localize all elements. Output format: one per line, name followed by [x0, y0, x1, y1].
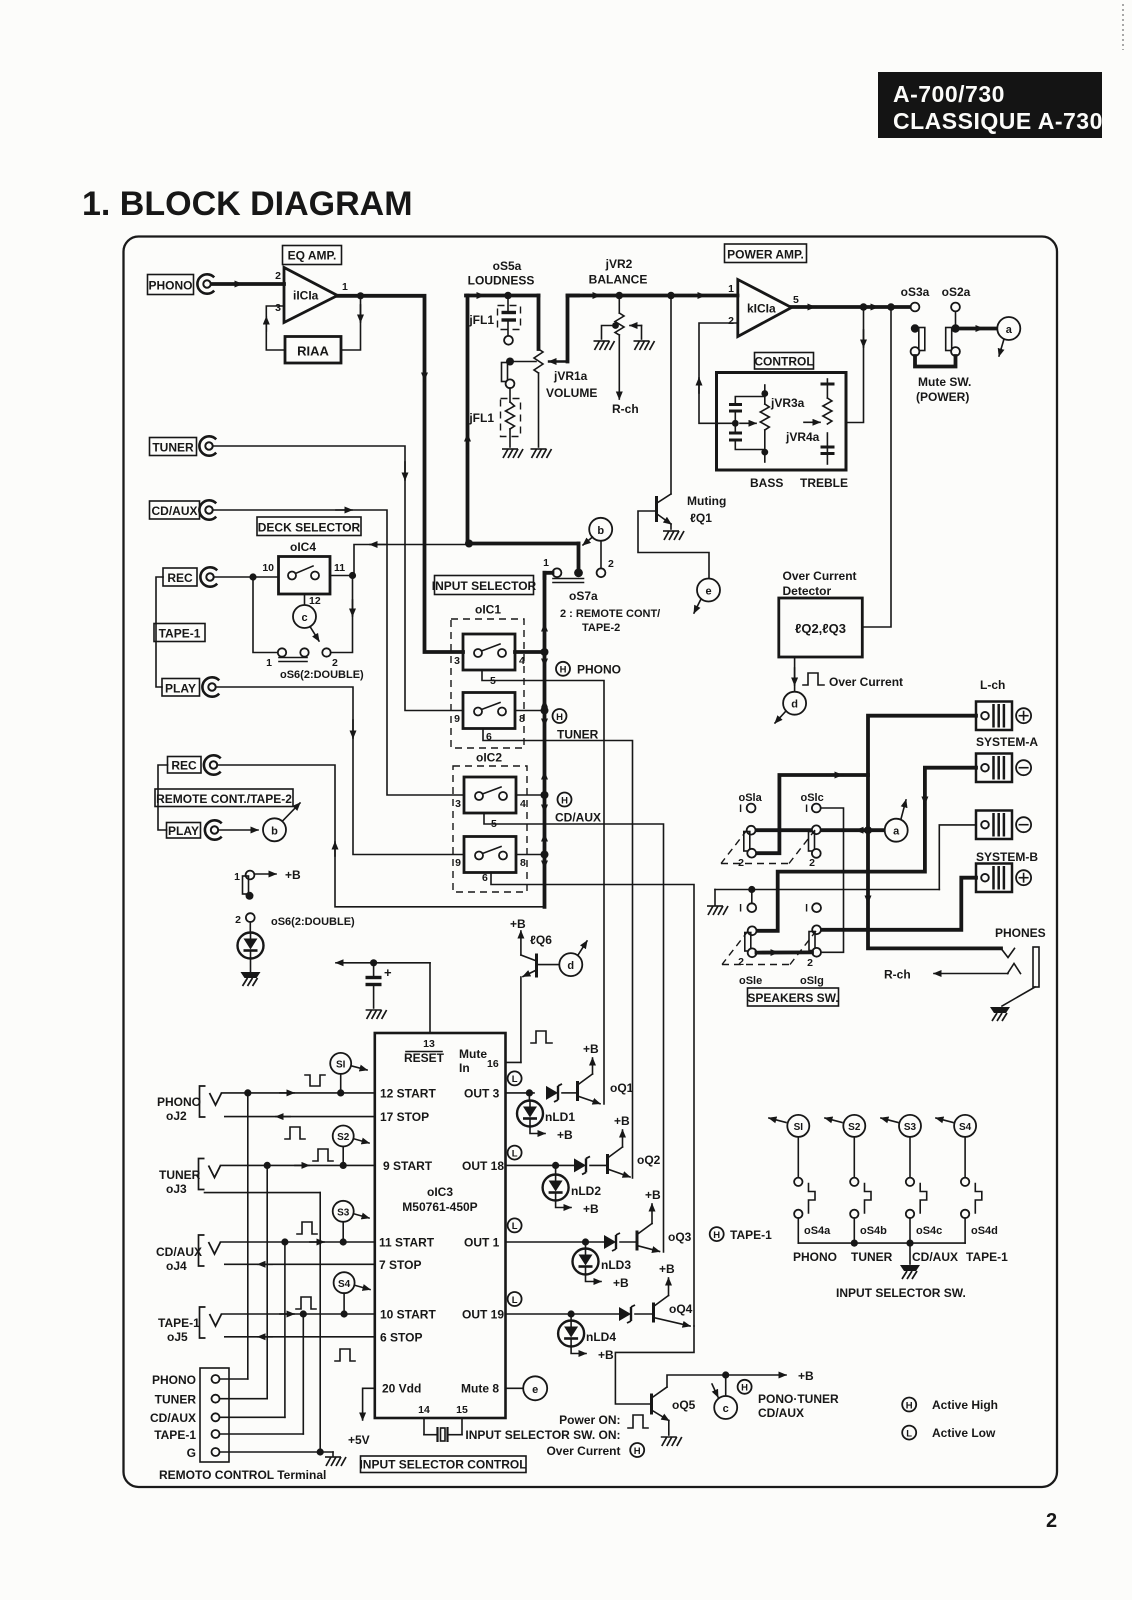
wire: panel common bus	[798, 1242, 965, 1244]
svg-text:1: 1	[543, 557, 549, 569]
POWER AMP. label box	[725, 244, 807, 263]
switch oS4c	[906, 1137, 927, 1243]
jack oJ4 cd/aux remote	[199, 1235, 221, 1266]
ground (solid) below LED	[241, 972, 261, 986]
node a (amp L output)	[885, 819, 908, 842]
PLAY jack connector (tape-1)	[202, 677, 219, 696]
ground (panel bus)	[900, 1265, 920, 1279]
pointer from node d	[775, 711, 786, 723]
switch oS5a lower section	[502, 363, 515, 389]
svg-text:oIC1: oIC1	[475, 603, 501, 617]
wire: LED4 to +B	[571, 1347, 586, 1354]
ground below loudness resistor	[502, 449, 523, 458]
node: dot out3	[526, 1089, 533, 1096]
H node (pono-tuner)	[738, 1380, 752, 1394]
H node (phono active high)	[556, 662, 570, 676]
svg-text:INPUT SELECTOR SW.: INPUT SELECTOR SW.	[836, 1286, 966, 1300]
switch oS4d	[961, 1137, 982, 1243]
svg-text:oS4c: oS4c	[916, 1225, 942, 1237]
pointer from node d	[578, 941, 587, 955]
svg-text:CD/AUX: CD/AUX	[912, 1250, 958, 1264]
svg-text:LOUDNESS: LOUDNESS	[468, 274, 535, 288]
wire: oS2a contact to pole	[955, 312, 957, 325]
ground (terminal G)	[325, 1457, 346, 1466]
svg-text:2: 2	[275, 270, 281, 282]
node: dot on ground bus above oS1e	[748, 886, 755, 893]
node: junction dot pin4 row	[541, 648, 549, 656]
terminal pin cd/aux	[212, 1413, 220, 1421]
node a (speaker feed)	[997, 317, 1020, 340]
wire: rail bend down to oS7a pole	[577, 544, 581, 571]
svg-text:H: H	[634, 1446, 641, 1457]
switch oS7a contact 2	[597, 568, 606, 577]
svg-text:jVR4a: jVR4a	[785, 430, 820, 444]
svg-text:S2: S2	[848, 1122, 861, 1133]
svg-text:OUT 1: OUT 1	[464, 1236, 500, 1250]
potentiometer jVR4a treble	[823, 398, 832, 424]
wire: thick selected-signal rail	[468, 542, 579, 546]
control node d (over current)	[783, 692, 806, 715]
svg-text:2: 2	[809, 857, 815, 869]
wire: IC2-1 pin 5 control line to Q3 emitter	[484, 813, 664, 1252]
S2 pushbutton node	[333, 1126, 354, 1147]
ground below muting transistor	[663, 531, 684, 540]
IC2 dashed outline	[453, 766, 527, 892]
node: dot S4 stem	[341, 1310, 348, 1317]
wire: LED3 to +B	[586, 1275, 602, 1282]
LED nLD4	[570, 1314, 572, 1321]
svg-text:l: l	[805, 803, 808, 815]
wire: dot to oS1e contact 1	[751, 890, 753, 904]
svg-text:H: H	[906, 1400, 913, 1411]
svg-text:INPUT SELECTOR: INPUT SELECTOR	[432, 579, 537, 593]
wire: oS1c contact 1 to oS1g lower pole	[821, 808, 844, 952]
pulse symbol (over current)	[803, 673, 824, 685]
wire: pin 20 Vdd to +5V	[363, 1388, 375, 1420]
svg-text:A-700/730: A-700/730	[893, 81, 1005, 107]
svg-text:oS4b: oS4b	[860, 1225, 887, 1237]
S4 panel node	[954, 1115, 976, 1137]
svg-text:CLASSIQUE A-730: CLASSIQUE A-730	[893, 108, 1103, 134]
dashed frame around oS1e / oS1g	[722, 931, 816, 965]
svg-text:oQ3: oQ3	[668, 1230, 692, 1244]
svg-text:jFL1: jFL1	[468, 313, 494, 327]
detector box lQ2,lQ3	[779, 598, 863, 657]
wire: feedback from output down to RIAA	[341, 296, 361, 350]
L node legend	[902, 1426, 916, 1440]
wire: contact 1 to selector output riser (thick)	[545, 573, 553, 578]
node: bus dot S3	[906, 1240, 913, 1247]
node: dot on start row	[244, 1089, 251, 1096]
wire: pin 7 STOP to jack	[225, 1263, 375, 1265]
bass coupling caps	[718, 394, 765, 453]
crystal on pins 14/15	[424, 1418, 462, 1442]
H node (over current)	[630, 1443, 644, 1457]
wire: bus to ground	[909, 1243, 911, 1264]
svg-text:oS7a: oS7a	[569, 589, 598, 603]
svg-text:c: c	[723, 1403, 729, 1415]
speaker terminal SYSTEM-A -	[976, 754, 1012, 783]
svg-text:oQ4: oQ4	[669, 1302, 693, 1316]
svg-text:PHONES: PHONES	[995, 926, 1046, 940]
svg-text:CD/AUX: CD/AUX	[150, 1411, 196, 1425]
svg-text:8: 8	[519, 713, 525, 725]
svg-text:SI: SI	[794, 1122, 804, 1133]
control node e (mute ctl)	[523, 1376, 547, 1400]
svg-text:L: L	[512, 1295, 518, 1306]
wire: oS1a contact 2 loop to L-ch riser (thick)	[756, 775, 868, 853]
pointer from S3	[355, 1214, 370, 1218]
svg-text:(POWER): (POWER)	[916, 390, 969, 404]
H node (tape-1 row)	[710, 1227, 724, 1241]
svg-text:2: 2	[728, 315, 734, 327]
wire: node a to speaker switch pole bus (thick)	[756, 828, 885, 832]
switch IC4 (deck selector)	[279, 557, 331, 595]
svg-text:4: 4	[519, 655, 525, 667]
wire: kIC1a pin 2 from control box	[699, 323, 737, 423]
svg-text:OUT 19: OUT 19	[462, 1308, 504, 1322]
wire: phone jack sleeve to ground	[1002, 987, 1035, 1006]
pointer into node c	[712, 1384, 718, 1397]
svg-text:7 STOP: 7 STOP	[379, 1258, 421, 1272]
svg-text:G: G	[187, 1446, 196, 1460]
svg-text:5: 5	[793, 294, 799, 306]
switch IC1-1 (phono)	[463, 634, 515, 670]
svg-text:3: 3	[455, 798, 461, 810]
wire: mute switch output to node a	[960, 327, 996, 331]
svg-text:oS6(2:DOUBLE): oS6(2:DOUBLE)	[271, 916, 355, 928]
control node d (mute from over current)	[559, 953, 582, 976]
DECK SELECTOR label box	[257, 517, 361, 536]
REC label box (tape-2)	[168, 757, 202, 774]
svg-text:16: 16	[487, 1058, 499, 1070]
wire: pin 6 STOP to jack	[225, 1336, 375, 1338]
H node (cd/aux active high)	[558, 793, 572, 807]
bass wiper arrow	[740, 422, 756, 424]
svg-text:oSlc: oSlc	[801, 792, 824, 804]
node: junction dot	[541, 791, 549, 799]
pointer from node b	[283, 803, 301, 821]
S1 pushbutton node	[330, 1053, 351, 1074]
pointer from S2	[355, 1139, 370, 1143]
svg-text:d: d	[567, 960, 574, 972]
mute switch oS3a section	[911, 303, 925, 356]
svg-text:S3: S3	[904, 1122, 917, 1133]
wire: terminal tape-1 to riser	[220, 1433, 304, 1435]
wire: play jack to IC2 switch-2 pin 9	[217, 687, 464, 855]
svg-text:EQ AMP.: EQ AMP.	[288, 249, 337, 263]
treble wiper arrow	[804, 421, 820, 423]
wire: Mute pin 8 to node e	[506, 1387, 524, 1389]
svg-text:2: 2	[738, 956, 744, 968]
capacitor (reset delay, electrolytic)	[366, 963, 393, 1008]
svg-text:L: L	[512, 1074, 518, 1085]
svg-text:oS4a: oS4a	[804, 1225, 831, 1237]
wire: oJ3 to pin 9 START	[221, 1164, 375, 1166]
EQ AMP. label box	[283, 246, 342, 265]
svg-text:Over Current: Over Current	[546, 1444, 620, 1458]
svg-text:b: b	[271, 825, 278, 837]
wire: Q6 emitter line into IC3 pin 16	[506, 1061, 521, 1063]
wire: oJ4 to pin 11 START	[221, 1241, 375, 1243]
svg-text:12: 12	[309, 595, 321, 607]
svg-text:20 Vdd: 20 Vdd	[382, 1382, 421, 1396]
svg-text:ℓQ1: ℓQ1	[690, 511, 712, 525]
wire: cd/aux remote line down to terminal	[284, 1242, 286, 1417]
svg-text:1. BLOCK DIAGRAM: 1. BLOCK DIAGRAM	[82, 185, 413, 223]
L node (out1)	[508, 1218, 522, 1232]
node: dot out19	[568, 1310, 575, 1317]
RESET label (with overline)	[404, 1051, 445, 1065]
control box outline	[717, 373, 847, 471]
svg-text:TAPE-1: TAPE-1	[154, 1428, 196, 1442]
wire: oJ5 to pin 10 START	[222, 1313, 375, 1315]
TAPE-1 label box	[154, 624, 205, 642]
svg-text:POWER AMP.: POWER AMP.	[727, 248, 804, 262]
pulse symbol (power on)	[628, 1415, 648, 1428]
svg-text:+B: +B	[285, 868, 301, 882]
RIAA feedback network box	[285, 337, 341, 364]
svg-text:c: c	[301, 612, 307, 624]
pointer from node b	[583, 537, 593, 545]
pointer from S1	[352, 1066, 367, 1070]
LED nPL (power indicator)	[238, 933, 264, 959]
svg-text:PHONO: PHONO	[577, 663, 621, 677]
svg-text:L-ch: L-ch	[980, 678, 1005, 692]
wire: pin 17 STOP to jack	[225, 1116, 375, 1118]
wire: IC2-1 pin 4 to selector riser	[516, 794, 545, 796]
pointer from S4	[356, 1286, 371, 1290]
transistor lQ6 (mute drive)	[521, 931, 537, 1062]
potentiometer jVR1a volume	[534, 296, 543, 448]
wire: bracket joining tape-2 REC and PLAY	[158, 765, 168, 830]
wire: diode to Q3 base	[620, 1241, 636, 1243]
wire: thick A- return	[757, 768, 977, 931]
svg-text:nLD2: nLD2	[571, 1184, 601, 1198]
plus node B+	[1016, 870, 1031, 885]
REMOTE CONT./TAPE-2 label box	[155, 789, 293, 807]
svg-text:kICIa: kICIa	[747, 302, 776, 316]
wire: S3 stem	[342, 1222, 344, 1242]
wire: oS6 contact 1 to +B	[255, 873, 277, 875]
node: junction dot at loudness riser	[465, 540, 473, 548]
diode (Q3 base)	[604, 1233, 620, 1251]
node: dot S2 stem	[340, 1162, 347, 1169]
transistor oQ1	[578, 1058, 601, 1104]
svg-text:INPUT SELECTOR SW. ON:: INPUT SELECTOR SW. ON:	[465, 1428, 620, 1442]
svg-text:jFL1: jFL1	[468, 411, 494, 425]
pulse symbol (S2)	[285, 1127, 305, 1139]
svg-text:Mute SW.: Mute SW.	[918, 375, 971, 389]
phones ring contact (R)	[1008, 964, 1021, 974]
pointer from node a	[901, 800, 906, 819]
svg-text:TREBLE: TREBLE	[800, 476, 848, 490]
svg-text:+B: +B	[659, 1262, 675, 1276]
ground below Q5	[661, 1437, 682, 1446]
node: junction dot on +B line	[370, 959, 377, 966]
page edge tick marks	[1122, 4, 1124, 50]
svg-text:TUNER: TUNER	[152, 441, 194, 455]
wire: output down to tone control box	[847, 307, 864, 423]
PHONO jack connector	[197, 274, 214, 293]
ground (phones)	[990, 1007, 1010, 1021]
wire: phono remote line down to terminal	[247, 1093, 249, 1379]
svg-text:oSle: oSle	[739, 975, 762, 987]
diode (Q4 base)	[619, 1305, 635, 1323]
svg-text:H: H	[713, 1230, 720, 1241]
ground below reset cap	[366, 1010, 387, 1019]
wire: thick link oS1e-2 to oS1g-2	[757, 951, 813, 955]
LED nLD2	[555, 1165, 557, 1175]
CONTROL label box	[754, 353, 813, 370]
wire: tap from main selector line down to IC4 pin 11	[354, 545, 466, 576]
pointer from node e	[694, 599, 701, 613]
wire: Q5 collector to +B	[667, 1375, 786, 1387]
svg-text:ℓQ2,ℓQ3: ℓQ2,ℓQ3	[795, 621, 846, 636]
svg-text:CONTROL: CONTROL	[754, 355, 813, 369]
svg-text:BASS: BASS	[750, 476, 783, 490]
wire: junction down to oS6 contact 1	[253, 577, 278, 653]
svg-text:+: +	[384, 965, 392, 980]
wire: rec jack to IC4 pin 10	[215, 576, 279, 578]
TUNER input label box	[150, 438, 197, 456]
wire: balance right tap to ground	[641, 326, 643, 340]
node: dot out1	[582, 1238, 589, 1245]
wire: contact 2 up to node b	[600, 541, 602, 568]
svg-text:PONO·TUNER: PONO·TUNER	[758, 1392, 839, 1406]
ground below volume pot	[531, 449, 552, 458]
switch oS1a (speaker A L)	[738, 803, 756, 869]
node: junction dot on rec wire	[249, 573, 256, 580]
node: balance junction dot	[616, 292, 624, 300]
svg-text:L: L	[512, 1148, 518, 1159]
diagram outer frame	[124, 237, 1058, 1488]
control node c (deck selector knob)	[293, 605, 316, 628]
PLAY label box (tape-1)	[162, 679, 200, 697]
svg-text:SPEAKERS SW.: SPEAKERS SW.	[747, 991, 838, 1005]
wire: balance left tap to ground	[602, 322, 619, 339]
svg-text:+B: +B	[557, 1128, 573, 1142]
svg-text:Over Current: Over Current	[783, 569, 857, 583]
wire: S2 stem	[342, 1147, 344, 1166]
svg-text:H: H	[561, 795, 568, 806]
treble coupling caps	[821, 379, 835, 464]
control node c (pono-tuner drive)	[714, 1396, 737, 1419]
svg-text:BALANCE: BALANCE	[589, 273, 648, 287]
pointer from node a	[999, 339, 1004, 356]
node: dot tape row	[300, 1310, 307, 1317]
svg-text:CD/AUX: CD/AUX	[151, 504, 197, 518]
svg-text:Power ON:: Power ON:	[559, 1413, 620, 1427]
svg-text:jVR1a: jVR1a	[553, 369, 588, 383]
svg-text:TUNER: TUNER	[155, 1393, 197, 1407]
svg-text:oQ5: oQ5	[672, 1398, 696, 1412]
wire: wiper node to loudness switch	[510, 361, 536, 363]
CD/AUX jack connector	[199, 500, 216, 519]
potentiometer jVR3a bass	[760, 385, 769, 462]
control node e (muting drive)	[697, 579, 720, 602]
wiper arrow into balance pot	[630, 325, 642, 327]
switch IC1-2 (tuner)	[463, 693, 515, 729]
oS6 contact 1 (panel symbol)	[234, 871, 254, 900]
pulse symbol (S1 negative)	[305, 1075, 325, 1086]
transistor oQ4	[654, 1278, 691, 1326]
wire: OUT 18 row	[506, 1164, 575, 1166]
SPEAKERS SW. label box	[747, 988, 838, 1006]
wire: RIAA to op-amp pin 3	[266, 306, 285, 350]
svg-text:M50761-450P: M50761-450P	[402, 1200, 477, 1214]
svg-text:2: 2	[332, 657, 338, 669]
node: junction dot pin8 row	[541, 707, 549, 715]
svg-text:9: 9	[455, 857, 461, 869]
plus node A+	[1016, 708, 1031, 723]
svg-text:TAPE-2: TAPE-2	[582, 622, 620, 634]
svg-text:SYSTEM-A: SYSTEM-A	[976, 735, 1038, 749]
svg-text:a: a	[1006, 324, 1013, 336]
terminal pin G	[212, 1448, 220, 1456]
wire: terminal cd/aux to riser	[220, 1416, 285, 1418]
IC1 dashed outline	[451, 619, 524, 748]
node: output junction dot (control feed)	[860, 303, 868, 311]
ground left of balance	[594, 341, 615, 350]
svg-text:1: 1	[266, 657, 272, 669]
wire: power amp output (thick) to mute switch	[792, 305, 913, 309]
wire: S1 stem	[340, 1074, 342, 1093]
node: loudness rail junction dot	[504, 292, 512, 300]
svg-text:oSlg: oSlg	[800, 975, 824, 987]
svg-text:PHONO: PHONO	[152, 1373, 196, 1387]
jack oJ2 phono remote	[200, 1086, 222, 1117]
switch IC2-1 (cd/aux)	[464, 777, 516, 813]
CD/AUX input label box	[150, 501, 200, 519]
S2 panel node	[843, 1115, 865, 1137]
svg-text:15: 15	[456, 1404, 468, 1416]
svg-text:S3: S3	[337, 1208, 350, 1219]
svg-text:e: e	[532, 1384, 538, 1396]
wire: thick U link under mute switch	[915, 356, 956, 367]
wire: +B feed to IC3 reset pin 13	[336, 963, 430, 1033]
phones tip contact (L)	[1001, 948, 1015, 957]
svg-text:PLAY: PLAY	[168, 824, 199, 838]
svg-text:l: l	[805, 903, 808, 915]
svg-text:SYSTEM-B: SYSTEM-B	[976, 850, 1038, 864]
wire: terminal phono to riser	[220, 1378, 248, 1380]
svg-text:OUT 18: OUT 18	[462, 1159, 504, 1173]
speaker terminal SYSTEM-B +	[976, 864, 1012, 893]
svg-text:L: L	[512, 1221, 518, 1232]
speaker terminal SYSTEM-A +	[976, 702, 1012, 731]
wire: diode to Q1 base	[562, 1092, 576, 1094]
svg-text:2: 2	[608, 558, 614, 570]
pulse symbol (cd/aux row)	[297, 1222, 317, 1234]
node: dot on Q5 collector line	[722, 1371, 729, 1378]
wire: detector output down to node d	[794, 657, 796, 691]
L node (out19)	[508, 1292, 522, 1306]
svg-text:oJ5: oJ5	[167, 1330, 188, 1344]
wire: thick loudness rail	[466, 294, 539, 298]
wire: IC1-1 pin 4 to selector riser (thick)	[515, 650, 545, 654]
node: bus dot S2	[851, 1240, 858, 1247]
svg-text:PHONO: PHONO	[148, 279, 192, 293]
wire: volume wiper to power amp rail riser	[549, 296, 578, 362]
pointer from S2 panel	[825, 1118, 842, 1123]
node: main rail junction feeding muting Q1	[667, 292, 675, 300]
node: junction dot	[541, 851, 549, 859]
wire: IC4 pin 11 to junction	[330, 575, 353, 577]
switch oS7a pole dot	[574, 568, 583, 577]
wire: tuner remote line down to terminal	[266, 1165, 268, 1398]
svg-text:+B: +B	[583, 1042, 599, 1056]
